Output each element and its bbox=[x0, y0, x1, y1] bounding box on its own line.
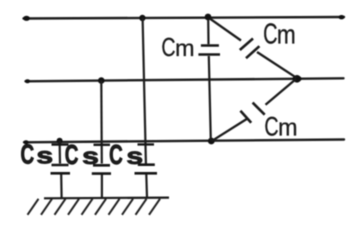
svg-text:s: s bbox=[36, 143, 53, 169]
svg-text:s: s bbox=[126, 143, 143, 169]
svg-text:C: C bbox=[65, 139, 79, 171]
svg-text:m: m bbox=[278, 115, 298, 141]
svg-text:C: C bbox=[109, 139, 123, 171]
svg-text:C: C bbox=[161, 32, 175, 61]
svg-text:s: s bbox=[82, 143, 99, 169]
svg-text:C: C bbox=[21, 139, 35, 171]
svg-text:m: m bbox=[175, 35, 195, 61]
svg-text:m: m bbox=[277, 21, 296, 50]
svg-text:C: C bbox=[263, 19, 277, 50]
svg-text:C: C bbox=[264, 113, 278, 143]
